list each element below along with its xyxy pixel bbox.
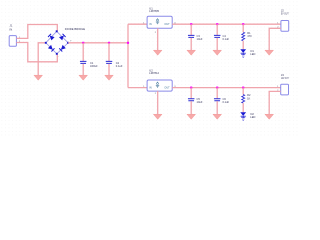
svg-text:0.1uF: 0.1uF: [223, 100, 230, 104]
capacitor C3 label: [197, 34, 203, 41]
bridge diode bottom-left: [48, 45, 55, 52]
ground symbol (C6): [213, 114, 222, 119]
svg-text:10uF: 10uF: [197, 37, 203, 41]
wire J1 pin1 to bridge top corner: [16, 25, 57, 39]
wire R1 to D1: [242, 41, 244, 50]
junction C4: [216, 23, 218, 25]
capacitor C1: [80, 61, 87, 63]
connector J2 label: [281, 9, 289, 16]
svg-text:IN: IN: [149, 23, 152, 26]
U1 OUT text: [164, 23, 170, 26]
svg-text:LM7805: LM7805: [149, 9, 159, 13]
LED D2 label: [250, 112, 255, 119]
wire R2 to D2: [242, 103, 244, 112]
capacitor C1 ground wire: [82, 64, 84, 75]
wire J2 pin2 to ground: [269, 28, 281, 50]
ground symbol (D2): [241, 116, 245, 120]
junction C6: [216, 87, 218, 89]
svg-text:IN: IN: [149, 87, 152, 90]
junction C5: [190, 87, 192, 89]
bridge corner node top: [56, 30, 58, 32]
ground symbol (C1): [79, 75, 88, 80]
U1 ground wire: [157, 28, 159, 50]
capacitor C2 label: [116, 61, 123, 68]
junction R1: [242, 23, 244, 25]
svg-text:J1: J1: [10, 24, 13, 28]
connector J3 label: [281, 73, 289, 80]
diode bridge outline: [46, 31, 68, 54]
capacitor C5 label: [197, 97, 203, 104]
junction C3: [190, 23, 192, 25]
svg-text:12V OUT: 12V OUT: [281, 76, 289, 80]
capacitor C5: [188, 99, 195, 101]
resistor R2 label: [247, 93, 251, 100]
connector J1: [9, 36, 16, 47]
wire bridge left corner to ground: [38, 43, 46, 75]
capacitor C1 stem: [82, 43, 84, 61]
bridge corner node right: [67, 42, 69, 44]
bridge corner node left: [45, 42, 47, 44]
capacitor C6 stem: [216, 88, 218, 99]
junction R2: [242, 87, 244, 89]
capacitor C4: [214, 35, 221, 37]
ground symbol (J2): [265, 50, 274, 55]
connector J1 label: [10, 24, 13, 32]
connector J2: [281, 21, 289, 32]
regulator U1 label: [149, 6, 159, 13]
ground symbol (C5): [187, 114, 196, 119]
U2 OUT text: [164, 87, 170, 90]
LED D2: [240, 112, 246, 116]
svg-text:0.1uF: 0.1uF: [223, 37, 230, 41]
regulator U1 body: [147, 16, 172, 28]
capacitor C3: [188, 35, 195, 37]
capacitor C2: [106, 61, 113, 63]
capacitor C6 ground wire: [216, 101, 218, 114]
svg-text:1000uF: 1000uF: [90, 64, 98, 68]
regulator U2 label: [149, 69, 159, 76]
junction C1: [82, 42, 84, 44]
svg-text:DIODE BRIDGE: DIODE BRIDGE: [65, 27, 85, 31]
resistor R1: [242, 32, 245, 41]
ground symbol (J3): [265, 114, 274, 119]
svg-text:10uF: 10uF: [197, 100, 203, 104]
svg-text:470: 470: [247, 34, 252, 38]
svg-text:0.1uF: 0.1uF: [116, 64, 123, 68]
regulator U2 body: [147, 80, 172, 91]
junction C2: [108, 42, 110, 44]
U1 internal gnd glyph: [156, 18, 159, 24]
capacitor C4 stem: [216, 24, 218, 35]
wire riser to U1 IN: [128, 23, 147, 25]
bridge diode bottom-right: [59, 45, 66, 52]
wire J1 pin2 to bridge bottom corner: [16, 43, 57, 62]
wire riser to regulators: [127, 24, 129, 87]
diode bridge label: [65, 27, 85, 31]
capacitor C1 label: [90, 61, 98, 68]
capacitor C5 ground wire: [190, 101, 192, 114]
capacitor C6: [214, 99, 221, 101]
ground symbol (D1): [241, 53, 245, 57]
resistor R1 label: [247, 31, 252, 38]
capacitor C3 stem: [190, 24, 192, 35]
U2 IN text: [149, 87, 152, 90]
ground symbol (U1): [153, 50, 162, 55]
svg-text:IN: IN: [10, 28, 13, 32]
LED D1 label: [250, 49, 255, 56]
wire +5V output rail: [172, 23, 281, 25]
svg-text:1K: 1K: [247, 96, 250, 100]
ground symbol (bridge negative): [34, 75, 43, 80]
svg-text:OUT: OUT: [164, 87, 170, 90]
resistor R2 stem: [242, 88, 244, 95]
svg-text:LM7812: LM7812: [149, 71, 159, 75]
capacitor C2 stem: [108, 43, 110, 61]
bridge minus mark: [58, 56, 59, 58]
capacitor C3 ground wire: [190, 38, 192, 50]
wire J3 pin2 to ground: [269, 91, 281, 114]
bridge diode top-right: [59, 34, 66, 41]
ground symbol (C4): [213, 50, 222, 55]
svg-text:LED: LED: [250, 115, 255, 119]
bridge diode top-left: [48, 34, 55, 41]
wire input rail from bridge right corner: [68, 42, 128, 44]
U1 IN text: [149, 23, 152, 26]
capacitor C2 ground wire: [108, 64, 110, 75]
capacitor C4 label: [223, 34, 230, 41]
resistor R2: [242, 95, 245, 104]
svg-text:OUT: OUT: [164, 23, 170, 26]
capacitor C6 label: [223, 97, 230, 104]
capacitor C4 ground wire: [216, 38, 218, 50]
connector J3: [281, 84, 289, 95]
wire riser to U2 IN: [128, 87, 147, 89]
wire +12V output rail: [172, 87, 281, 89]
resistor R1 stem: [242, 24, 244, 32]
svg-text:5V OUT: 5V OUT: [281, 11, 289, 15]
bridge corner node bottom: [56, 53, 58, 55]
U2 ground wire: [157, 91, 159, 114]
LED D1: [240, 49, 246, 53]
junction riser: [127, 42, 129, 44]
capacitor C5 stem: [190, 88, 192, 99]
svg-text:LED: LED: [250, 52, 255, 56]
bridge plus mark: [70, 40, 72, 42]
ground symbol (C3): [187, 50, 196, 55]
U2 internal gnd glyph: [156, 82, 159, 88]
ground symbol (U2): [153, 114, 162, 119]
ground symbol (C2): [105, 75, 114, 80]
